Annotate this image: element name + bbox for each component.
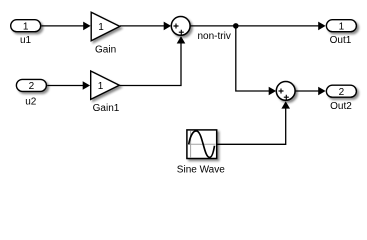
- svg-text:1: 1: [339, 21, 345, 32]
- wire Sine Wave to sum U2 bottom: [217, 101, 290, 144]
- sine icon axes: [188, 131, 215, 158]
- wire Gain1 to sum U1 bottom: [119, 36, 185, 85]
- svg-text:u2: u2: [25, 97, 37, 108]
- wire sum U1 to Out1: [190, 22, 325, 31]
- sine wave source block: [177, 130, 225, 175]
- wire u2 to Gain1: [47, 81, 90, 90]
- outport Out2: [326, 85, 356, 112]
- svg-text:1: 1: [98, 81, 104, 92]
- svg-text:non-triv: non-triv: [198, 31, 231, 42]
- svg-text:Out2: Out2: [330, 101, 352, 112]
- wire Gain to sum U1: [120, 22, 171, 31]
- svg-text:2: 2: [29, 81, 35, 92]
- svg-text:Out1: Out1: [330, 35, 352, 46]
- svg-text:Gain1: Gain1: [93, 103, 120, 114]
- gain Gain: [91, 12, 120, 55]
- junction dot: [233, 23, 239, 29]
- wire u1 to Gain: [42, 22, 91, 31]
- sum U1: [171, 17, 190, 36]
- svg-text:u1: u1: [20, 35, 32, 46]
- inport u2: [16, 79, 46, 107]
- svg-text:2: 2: [339, 87, 345, 98]
- svg-text:Sine Wave: Sine Wave: [177, 164, 225, 175]
- svg-text:Gain: Gain: [95, 44, 116, 55]
- svg-text:1: 1: [23, 21, 29, 32]
- outport Out1: [326, 20, 356, 46]
- inport u1: [11, 20, 41, 46]
- sine icon curve: [189, 131, 215, 158]
- sum U2: [276, 82, 295, 101]
- gain Gain1: [91, 71, 120, 114]
- wire branch junction down to sum U2: [236, 26, 276, 95]
- wire sum U2 to Out2: [295, 87, 325, 96]
- svg-text:1: 1: [98, 22, 104, 33]
